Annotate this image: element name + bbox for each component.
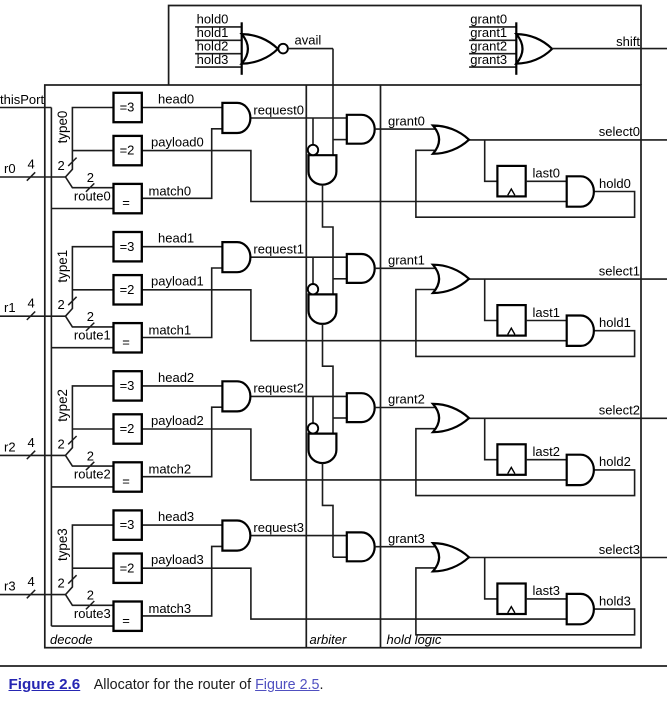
svg-text:select3: select3 [599,542,640,557]
svg-text:2: 2 [58,436,65,451]
wire match3: = comparator to request AND [142,546,223,616]
svg-text:=: = [122,334,130,349]
flip-flop last1 [497,305,525,336]
AND gate grant2 [347,393,375,422]
wire type3 branch (upper fork) [66,525,114,595]
wire head3: =3 comparator to request AND [142,524,223,526]
svg-text:=3: =3 [120,100,135,115]
bus width slash 2 on type1 [68,297,76,305]
svg-text:=3: =3 [120,239,135,254]
NOR gate U_avail body [242,34,278,64]
AND gate hold2 [567,455,594,485]
wire request0 tap to priority NAND bubble [312,118,314,145]
svg-text:route2: route2 [74,467,111,482]
svg-text:thisPort: thisPort [0,92,44,107]
wire r2 input (4-bit bus) [0,454,66,456]
OR gate select2 [433,404,469,432]
svg-text:4: 4 [28,157,35,172]
comparator =3 row 3 (head detect) [114,510,142,539]
bus width slash 2 on route1 [86,323,94,331]
svg-text:type1: type1 [55,250,70,283]
svg-text:route3: route3 [74,606,111,621]
svg-text:2: 2 [87,309,94,324]
wire last3: flip-flop to hold AND [526,598,567,600]
wire grant2: arbiter to hold-logic OR [375,407,438,409]
bus width slash 2 on route0 [86,183,94,191]
wire hold1 feedback loop to OR input [416,290,635,357]
svg-text:head3: head3 [158,509,194,524]
wire payload0: =2 comparator to hold AND [142,151,567,202]
AND gate request3 [222,521,250,551]
AND gate request0 [222,103,250,133]
svg-text:r1: r1 [4,300,16,315]
NOR gate U_avail input wires hold0-hold3 [195,26,242,28]
NOR gate U_avail input bar [241,22,243,75]
svg-text:type3: type3 [55,528,70,561]
top box: avail/shift logic enclosure [169,6,641,86]
OR gate U_shift input bar [515,22,517,75]
wire select2 tap to last2 flip-flop [485,418,498,459]
svg-text:=2: =2 [120,560,135,575]
AND gate hold1 [567,316,594,346]
bus width slash 4 on r2 [27,451,35,459]
svg-text:match2: match2 [149,462,192,477]
svg-text:type0: type0 [55,111,70,144]
wire hold0 feedback loop to OR input [416,150,635,217]
comparator =2 row 0 (payload detect) [114,136,142,165]
wire route2 branch (lower fork) [66,455,114,466]
flip-flop last3 [497,584,525,615]
wire last1: flip-flop to hold AND [526,320,567,322]
svg-text:match1: match1 [149,323,192,338]
wire carry chain into arbiter cell 3 [323,463,334,557]
wire type3 to =2 comparator [72,567,113,569]
wire type0 to =2 comparator [72,150,113,152]
svg-text:=: = [122,613,130,628]
wire select1 tap to last1 flip-flop [485,279,498,320]
wire type2 branch (upper fork) [66,386,114,456]
bus width slash 4 on r3 [27,590,35,598]
svg-text:=: = [122,195,130,210]
AND gate hold3 [567,594,594,624]
svg-text:last1: last1 [533,305,560,320]
wire payload2: =2 comparator to hold AND [142,429,567,480]
svg-text:grant2: grant2 [388,392,425,407]
wire type1 branch (upper fork) [66,247,114,317]
wire head0: =3 comparator to request AND [142,107,223,109]
comparator = row 1 (route match) [114,323,142,352]
bus width slash 2 on type3 [68,575,76,583]
svg-text:hold0: hold0 [599,176,631,191]
wire request2 tap to priority NAND bubble [312,396,314,423]
svg-text:decode: decode [50,632,93,647]
wire select3: OR output to right edge [469,557,667,559]
svg-text:2: 2 [87,170,94,185]
wire select1: OR output to right edge [469,278,667,280]
clock caret on flip-flop last2 [508,467,515,473]
bus width slash 2 on route2 [86,462,94,470]
svg-text:2: 2 [58,158,65,173]
wire select2: OR output to right edge [469,417,667,419]
svg-text:r0: r0 [4,161,16,176]
svg-text:last0: last0 [533,166,560,181]
clock caret on flip-flop last3 [508,607,515,613]
svg-text:hold3: hold3 [599,593,631,608]
wire match0: = comparator to request AND [142,129,223,199]
flip-flop last2 [497,444,525,475]
svg-text:request3: request3 [253,520,304,535]
wire shift output [552,48,667,50]
wire head1: =3 comparator to request AND [142,246,223,248]
wire r0 input (4-bit bus) [0,176,66,178]
wire r1 input (4-bit bus) [0,315,66,317]
priority AND gate (carry kill) cell 1 [309,294,337,324]
svg-text:head1: head1 [158,231,194,246]
wire grant0: arbiter to hold-logic OR [375,128,438,130]
inverter bubble on priority AND cell 0 [308,145,318,155]
svg-text:4: 4 [28,296,35,311]
svg-text:last2: last2 [533,444,560,459]
wire thisPort stub to comparator row 0 [51,208,113,210]
clock caret on flip-flop last0 [508,189,515,195]
AND gate request1 [222,242,250,272]
svg-text:payload0: payload0 [151,134,204,149]
wire route3 branch (lower fork) [66,595,114,606]
svg-text:select2: select2 [599,403,640,418]
svg-text:=2: =2 [120,282,135,297]
wire hold2 feedback loop to OR input [416,429,635,496]
bus width slash 2 on route3 [86,601,94,609]
comparator =3 row 0 (head detect) [114,93,142,122]
wire type1 to =2 comparator [72,289,113,291]
AND gate grant1 [347,254,375,283]
wire carry to grant2 AND input [333,417,347,419]
svg-text:=3: =3 [120,517,135,532]
wire match1: = comparator to request AND [142,268,223,338]
wire thisPort input [0,107,51,109]
wire carry chain into arbiter cell 2 [323,324,334,434]
wire type2 to =2 comparator [72,428,113,430]
wire select0: OR output to right edge [469,139,667,141]
svg-text:request0: request0 [253,102,304,117]
wire r3 input (4-bit bus) [0,594,66,596]
wire carry to grant3 AND input [333,556,347,558]
svg-text:hold1: hold1 [599,315,631,330]
NOR gate U_avail output bubble [278,44,288,54]
priority AND gate (carry kill) cell 0 [309,155,337,185]
svg-text:avail: avail [295,32,322,47]
divider arbiter|hold logic [380,85,382,648]
svg-text:r2: r2 [4,439,16,454]
wire thisPort stub to comparator row 3 [51,625,113,627]
wire last2: flip-flop to hold AND [526,459,567,461]
OR gate U_shift body [516,34,552,64]
horizontal rule above caption [0,665,667,667]
wire select0 tap to last0 flip-flop [485,140,498,181]
wire carry chain into arbiter cell 1 [323,185,334,295]
comparator = row 3 (route match) [114,602,142,631]
outer box: main allocator block [45,85,641,648]
divider decode|arbiter [305,85,307,648]
svg-text:2: 2 [87,448,94,463]
svg-text:shift: shift [616,34,640,49]
wire avail: NOR output to arbiter carry chain [288,48,333,50]
comparator = row 0 (route match) [114,184,142,213]
wire thisPort stub to comparator row 1 [51,347,113,349]
svg-text:select1: select1 [599,263,640,278]
priority AND gate (carry kill) cell 2 [309,434,337,463]
wire request3: AND output to arbiter [250,535,346,537]
wire request0: AND output to arbiter [250,117,346,119]
AND gate request2 [222,381,250,411]
wire route0 branch (lower fork) [66,177,114,188]
svg-text:head0: head0 [158,91,194,106]
wire grant1: arbiter to hold-logic OR [375,267,438,269]
svg-text:arbiter: arbiter [310,632,348,647]
svg-text:2: 2 [58,576,65,591]
OR gate U_shift input wires grant0-grant3 [469,26,516,28]
svg-text:payload3: payload3 [151,552,204,567]
wire thisPort stub to comparator row 2 [51,486,113,488]
svg-text:match0: match0 [149,183,192,198]
wire payload1: =2 comparator to hold AND [142,290,567,341]
caption: Figure 2.6 Allocator for the router of Figure 2.5. [9,676,667,693]
inverter bubble on priority AND cell 1 [308,284,318,294]
wire select3 tap to last3 flip-flop [485,558,498,599]
svg-text:type2: type2 [55,389,70,422]
bus width slash 2 on type2 [68,436,76,444]
AND gate hold0 [567,176,594,206]
wire match2: = comparator to request AND [142,407,223,477]
svg-text:payload1: payload1 [151,274,204,289]
bus width slash 4 on r1 [27,312,35,320]
flip-flop last0 [497,166,525,197]
wire payload3: =2 comparator to hold AND [142,568,567,619]
svg-text:r3: r3 [4,579,16,594]
svg-text:last3: last3 [533,583,560,598]
comparator =2 row 3 (payload detect) [114,554,142,583]
svg-text:=3: =3 [120,378,135,393]
wire request2: AND output to arbiter [250,395,346,397]
svg-text:request2: request2 [253,381,304,396]
svg-text:=2: =2 [120,421,135,436]
comparator =2 row 2 (payload detect) [114,414,142,443]
svg-text:request1: request1 [253,242,304,257]
wire grant3: arbiter to hold-logic OR [375,546,438,548]
svg-text:route0: route0 [74,188,111,203]
svg-text:head2: head2 [158,370,194,385]
wire carry to grant0 AND input [333,139,347,141]
svg-text:hold3: hold3 [197,52,229,67]
svg-text:select0: select0 [599,124,640,139]
comparator = row 2 (route match) [114,462,142,491]
wire route1 branch (lower fork) [66,316,114,327]
svg-text:payload2: payload2 [151,413,204,428]
svg-text:grant3: grant3 [388,531,425,546]
AND gate grant3 [347,532,375,561]
comparator =3 row 1 (head detect) [114,232,142,261]
bus width slash 2 on type0 [68,158,76,166]
comparator =2 row 1 (payload detect) [114,275,142,304]
bus width slash 4 on r0 [27,172,35,180]
inverter bubble on priority AND cell 2 [308,423,318,433]
wire request1: AND output to arbiter [250,256,346,258]
wire request1 tap to priority NAND bubble [312,257,314,284]
svg-text:2: 2 [58,297,65,312]
OR gate select0 [433,126,469,154]
svg-text:hold2: hold2 [599,454,631,469]
svg-text:2: 2 [87,588,94,603]
wire carry to grant1 AND input [333,278,347,280]
OR gate select3 [433,543,469,571]
svg-text:4: 4 [28,435,35,450]
svg-text:route1: route1 [74,328,111,343]
svg-text:match3: match3 [149,601,192,616]
wire last0: flip-flop to hold AND [526,180,567,182]
wire carry chain: avail into arbiter cell 0 [332,49,334,156]
svg-text:grant0: grant0 [388,113,425,128]
svg-text:4: 4 [28,574,35,589]
thisPort distribution bus [50,108,52,627]
wire head2: =3 comparator to request AND [142,385,223,387]
OR gate select1 [433,265,469,293]
AND gate grant0 [347,115,375,144]
wire type0 branch (upper fork) [66,108,114,178]
svg-text:=2: =2 [120,143,135,158]
svg-text:grant3: grant3 [470,52,507,67]
clock caret on flip-flop last1 [508,328,515,334]
svg-text:=: = [122,474,130,489]
wire hold3 feedback loop to OR input [416,568,635,635]
comparator =3 row 2 (head detect) [114,371,142,400]
svg-text:grant1: grant1 [388,253,425,268]
